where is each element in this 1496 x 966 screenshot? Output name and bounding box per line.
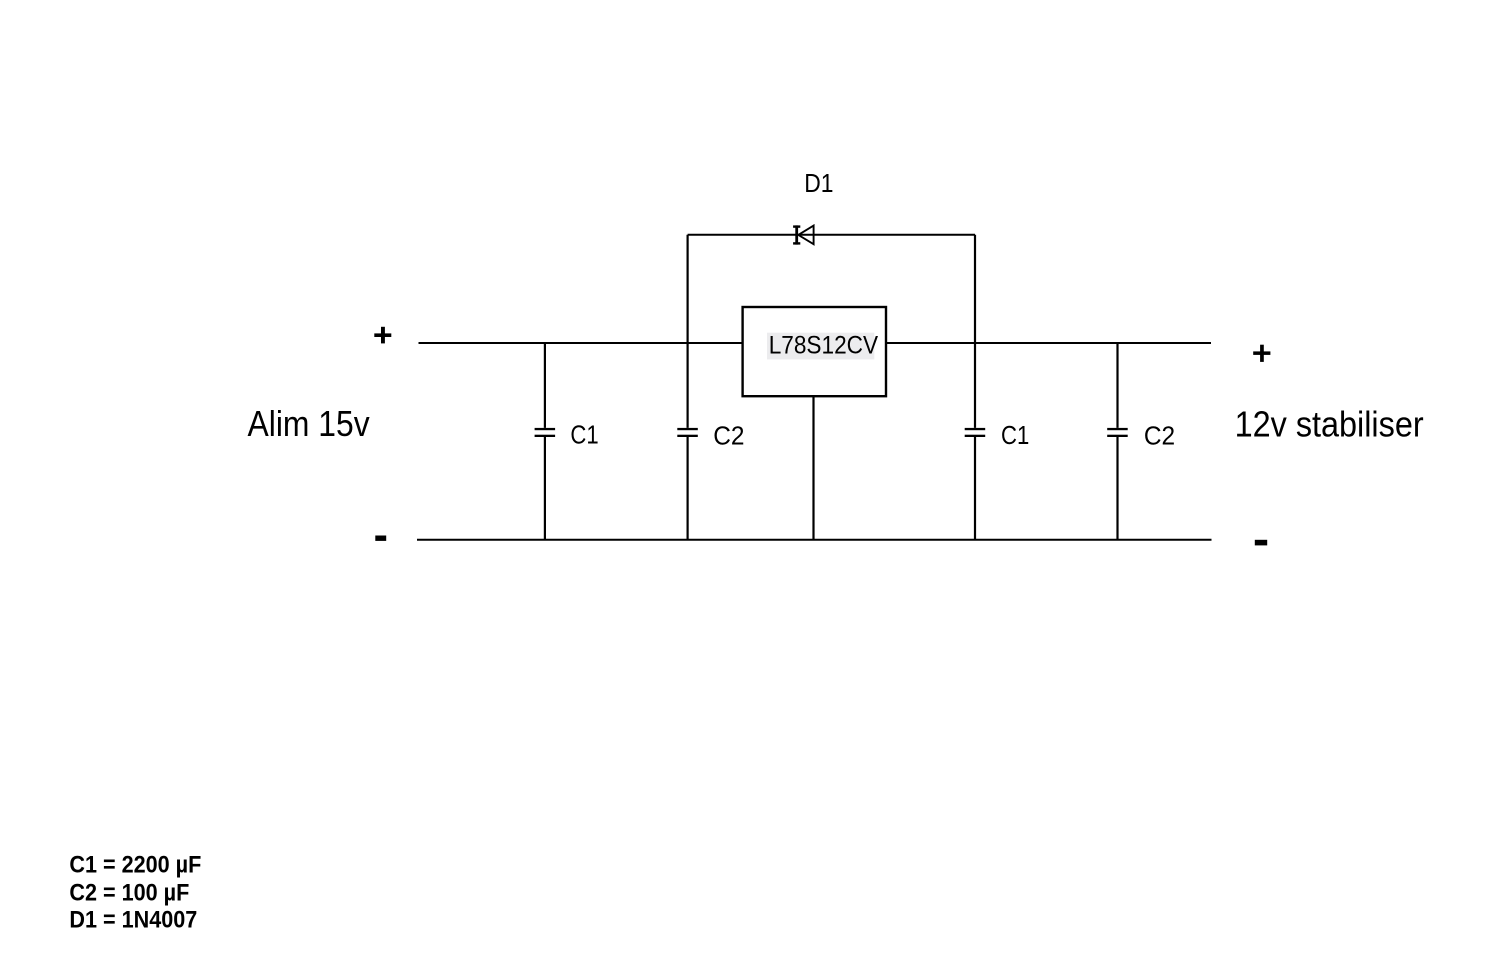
svg-text:C2: C2	[1144, 422, 1175, 451]
svg-text:D1 = 1N4007: D1 = 1N4007	[69, 906, 197, 933]
+ terminal (output)	[1253, 345, 1270, 362]
+ terminal (input)	[374, 327, 391, 344]
label D1	[804, 170, 833, 199]
label C2 (output)	[1144, 422, 1175, 451]
wire regulator GND pin	[812, 396, 814, 540]
svg-text:L78S12CV: L78S12CV	[769, 332, 878, 360]
- terminal (input)	[375, 536, 386, 541]
capacitor C2 (output) plates	[1107, 428, 1128, 437]
label C1 (input)	[570, 421, 598, 450]
svg-text:C2: C2	[713, 422, 744, 451]
svg-text:12v stabiliser: 12v stabiliser	[1235, 405, 1424, 445]
wire diode top horizontal	[688, 234, 975, 236]
capacitor C1 (input) plates	[535, 428, 556, 437]
wire top +15v rail	[419, 342, 1212, 344]
label C2 (input)	[713, 422, 744, 451]
wire input C2 vertical	[686, 343, 688, 540]
regulator U1 box	[743, 307, 886, 396]
svg-text:D1: D1	[804, 170, 833, 199]
label Alim 15v	[248, 404, 370, 444]
wire input C1 vertical	[544, 343, 546, 540]
- terminal (output)	[1255, 540, 1267, 546]
wire bottom 0v rail	[417, 539, 1212, 541]
legend C2 value	[69, 878, 189, 905]
capacitor C2 (input) plates	[677, 428, 698, 437]
diode D1	[793, 225, 814, 244]
wire output C2 vertical	[1116, 343, 1118, 540]
legend C1 value	[69, 851, 201, 878]
svg-text:Alim 15v: Alim 15v	[248, 404, 370, 444]
svg-text:C1: C1	[1001, 421, 1029, 450]
wire D1 left leg	[686, 235, 688, 343]
svg-text:C2 = 100 µF: C2 = 100 µF	[69, 878, 189, 905]
wire output C1 vertical	[974, 343, 976, 540]
legend D1 value	[69, 906, 197, 933]
label 12v stabiliser	[1235, 405, 1424, 445]
svg-text:C1: C1	[570, 421, 598, 450]
wire D1 right leg	[974, 235, 976, 343]
capacitor C1 (output) plates	[965, 428, 986, 437]
svg-text:C1 = 2200 µF: C1 = 2200 µF	[69, 851, 201, 878]
label L78S12CV with highlight	[767, 332, 878, 360]
label C1 (output)	[1001, 421, 1029, 450]
